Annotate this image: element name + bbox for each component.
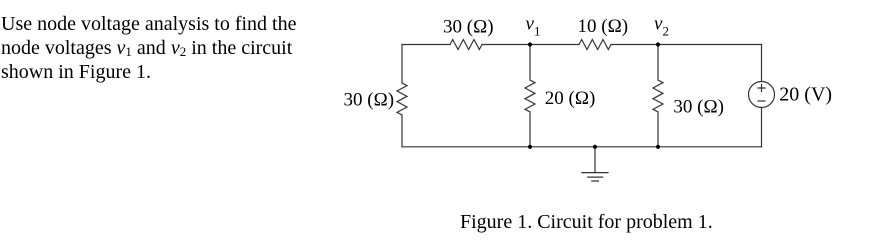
resistor R1 30 ohm (top-left horizontal zigzag) [450,40,482,50]
wire: top rail, left corner to resistor R1 [402,44,450,46]
wire: middle branch (node v1) upper segment [529,45,531,81]
figure caption [460,211,713,234]
svg-text:v2: v2 [654,14,669,39]
junction dot: ground to bottom rail [593,145,597,149]
svg-text:30 (Ω): 30 (Ω) [344,90,395,111]
wire: right branch (node v2) upper segment [657,45,659,81]
wire: top rail, R1 to node v1 [482,44,579,46]
node v2 junction dot (top) [656,42,660,46]
wire: left branch lower segment [401,115,403,147]
svg-text:30 (Ω): 30 (Ω) [443,17,494,38]
resistor R5 30 ohm (right vertical zigzag) [653,80,663,112]
wire: bottom rail [402,146,762,148]
wire: right branch lower segment [657,112,659,147]
wire: top rail, R2 to node v2 and on to right corner [611,44,762,46]
voltage source V1 20V (circle) [749,82,775,108]
junction dot: middle branch to bottom rail [528,145,532,149]
svg-text:v1: v1 [526,14,541,39]
junction dot: right branch to bottom rail [656,145,660,149]
svg-text:20 (V): 20 (V) [779,84,832,106]
wire: left branch upper segment [401,45,403,84]
ground symbol (three bars) [582,173,608,181]
wire: source branch upper segment [761,45,763,82]
svg-text:30 (Ω): 30 (Ω) [673,97,724,118]
voltage source minus terminal mark [758,100,765,102]
resistor R3 30 ohm (left vertical zigzag) [397,83,407,115]
wire: source branch lower segment [761,108,763,147]
wire: middle branch lower segment [529,112,531,147]
wire: ground stem [594,147,596,173]
resistor R2 10 ohm (top-middle horizontal zigzag) [579,40,611,50]
svg-text:20 (Ω): 20 (Ω) [545,88,596,109]
voltage source plus terminal mark [758,85,765,92]
resistor R4 20 ohm (middle vertical zigzag) [525,80,535,112]
svg-text:10 (Ω): 10 (Ω) [578,16,629,37]
problem statement text [1,12,297,84]
node v1 junction dot (top) [528,42,532,46]
